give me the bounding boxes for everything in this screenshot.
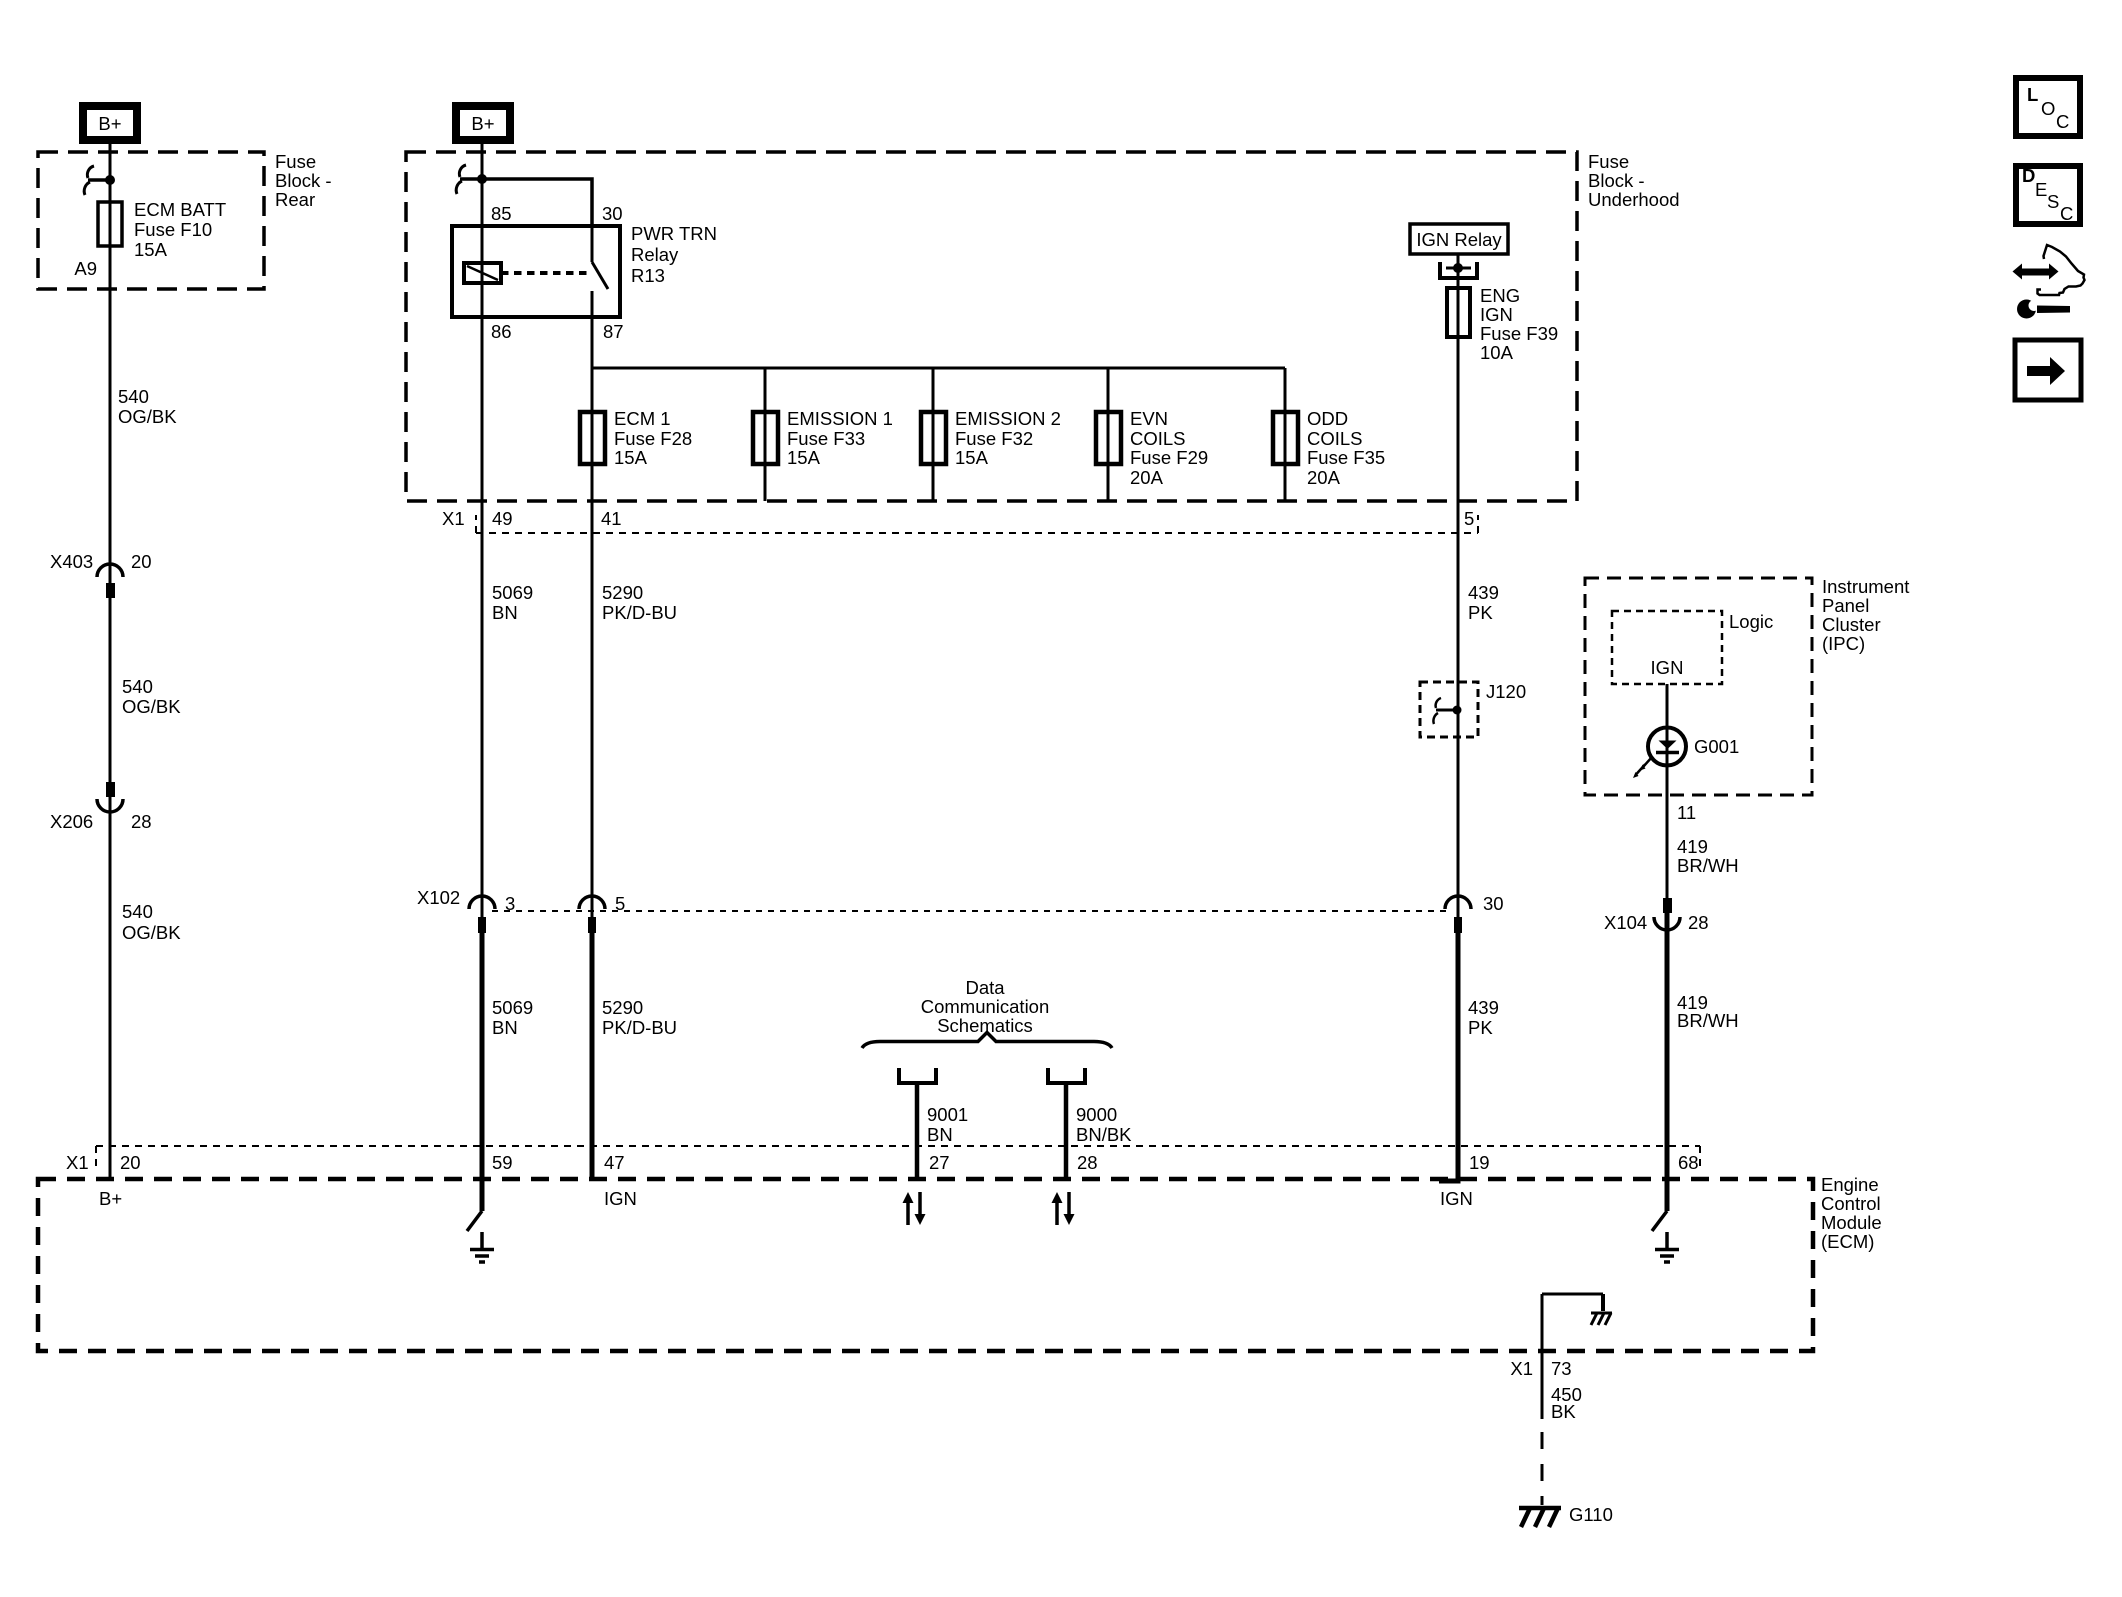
svg-text:X104: X104 bbox=[1604, 912, 1647, 933]
svg-text:X403: X403 bbox=[50, 551, 93, 572]
relay coil-contact dashed link bbox=[501, 271, 588, 275]
wire label 540 OG/BK (2) bbox=[122, 676, 181, 717]
svg-text:5: 5 bbox=[1464, 508, 1474, 529]
connector X206 bbox=[50, 782, 152, 832]
wire label 9001 BN bbox=[927, 1104, 968, 1145]
svg-text:Fuse F39: Fuse F39 bbox=[1480, 323, 1558, 344]
svg-text:BN: BN bbox=[492, 1017, 518, 1038]
svg-text:41: 41 bbox=[601, 508, 622, 529]
connector X403 bbox=[50, 551, 152, 598]
connector X104 bbox=[1604, 898, 1709, 933]
svg-text:ENG: ENG bbox=[1480, 285, 1520, 306]
svg-text:Fuse F10: Fuse F10 bbox=[134, 219, 212, 240]
svg-text:EMISSION 1: EMISSION 1 bbox=[787, 408, 893, 429]
ground at pin 59 bbox=[470, 1232, 494, 1262]
svg-text:BR/WH: BR/WH bbox=[1677, 855, 1739, 876]
svg-text:E: E bbox=[2035, 179, 2047, 200]
wire label 419 BR/WH (2) bbox=[1677, 992, 1739, 1031]
svg-text:ECM 1: ECM 1 bbox=[614, 408, 671, 429]
icon double arrow bbox=[2013, 264, 2059, 280]
small chassis ground in ECM bbox=[1591, 1313, 1612, 1325]
svg-text:Block -: Block - bbox=[1588, 170, 1645, 191]
pin X1 73 labels bbox=[1510, 1358, 1571, 1379]
svg-text:A9: A9 bbox=[74, 258, 97, 279]
svg-text:EVN: EVN bbox=[1130, 408, 1168, 429]
svg-text:(IPC): (IPC) bbox=[1822, 633, 1865, 654]
fuse block underhood label bbox=[1588, 151, 1680, 210]
svg-text:PK/D-BU: PK/D-BU bbox=[602, 602, 677, 623]
connector X102 pin 5 bbox=[579, 893, 625, 933]
connector X102 pin 3 bbox=[469, 893, 515, 933]
svg-text:X102: X102 bbox=[417, 887, 460, 908]
wire 540 OG/BK left vertical bbox=[109, 144, 112, 1179]
svg-text:OG/BK: OG/BK bbox=[122, 696, 181, 717]
connector X102 pin 30 bbox=[1445, 893, 1504, 933]
relay coil bbox=[464, 263, 501, 283]
svg-text:B+: B+ bbox=[98, 113, 121, 134]
connector X1 fuse block line bbox=[476, 515, 1478, 533]
wire 9001 BN bbox=[915, 1085, 920, 1179]
svg-text:28: 28 bbox=[1077, 1152, 1098, 1173]
wire label 419 BR/WH (1) bbox=[1677, 836, 1739, 876]
ECM switch blade pin 59 bbox=[467, 1211, 482, 1231]
svg-text:BK: BK bbox=[1551, 1401, 1576, 1422]
svg-text:5069: 5069 bbox=[492, 582, 533, 603]
svg-text:X1: X1 bbox=[66, 1152, 89, 1173]
svg-text:PK/D-BU: PK/D-BU bbox=[602, 1017, 677, 1038]
data link cup 9000 bbox=[1046, 1068, 1087, 1083]
svg-text:439: 439 bbox=[1468, 997, 1499, 1018]
svg-text:BR/WH: BR/WH bbox=[1677, 1010, 1739, 1031]
svg-text:G001: G001 bbox=[1694, 736, 1739, 757]
svg-text:Fuse F28: Fuse F28 bbox=[614, 428, 692, 449]
ECM label bbox=[1821, 1174, 1882, 1252]
svg-text:BN/BK: BN/BK bbox=[1076, 1124, 1132, 1145]
relay pin labels bbox=[491, 203, 624, 342]
IGN Relay box bbox=[1410, 224, 1508, 254]
svg-text:Control: Control bbox=[1821, 1193, 1881, 1214]
svg-text:15A: 15A bbox=[955, 447, 989, 468]
wire 5069 BN vertical bbox=[481, 144, 484, 917]
svg-text:9001: 9001 bbox=[927, 1104, 968, 1125]
svg-text:87: 87 bbox=[603, 321, 624, 342]
fuse block rear dashed box bbox=[38, 152, 264, 289]
fuse EVN COILS label bbox=[1130, 408, 1208, 488]
fuse bus line bbox=[592, 367, 1285, 370]
icon LOC box bbox=[2016, 78, 2080, 136]
svg-text:49: 49 bbox=[492, 508, 513, 529]
svg-text:Fuse F29: Fuse F29 bbox=[1130, 447, 1208, 468]
svg-text:X206: X206 bbox=[50, 811, 93, 832]
svg-text:11: 11 bbox=[1677, 802, 1696, 823]
wire 5290 from relay 87 bbox=[591, 291, 594, 917]
fuse ENG IGN F39 bbox=[1447, 288, 1470, 337]
relay R13 box bbox=[452, 226, 620, 317]
ground at pin 68 bbox=[1655, 1232, 1679, 1262]
svg-text:28: 28 bbox=[1688, 912, 1709, 933]
svg-text:9000: 9000 bbox=[1076, 1104, 1117, 1125]
svg-text:86: 86 bbox=[491, 321, 512, 342]
svg-text:5069: 5069 bbox=[492, 997, 533, 1018]
IPC label bbox=[1822, 576, 1909, 654]
svg-text:15A: 15A bbox=[787, 447, 821, 468]
svg-text:Underhood: Underhood bbox=[1588, 189, 1680, 210]
wire label 5290 PK/D-BU (2) bbox=[602, 997, 677, 1038]
splice hook at B+ rear bbox=[84, 166, 110, 195]
svg-text:20: 20 bbox=[120, 1152, 141, 1173]
wire label 540 OG/BK (3) bbox=[122, 901, 181, 943]
logic dashed box bbox=[1612, 611, 1722, 684]
fuse ODD COILS F35 bbox=[1273, 412, 1298, 464]
svg-text:19: 19 bbox=[1469, 1152, 1490, 1173]
wire label 5290 PK/D-BU (1) bbox=[602, 582, 677, 623]
svg-text:IGN: IGN bbox=[1440, 1188, 1473, 1209]
svg-text:540: 540 bbox=[122, 901, 153, 922]
wire label 5069 BN (1) bbox=[492, 582, 533, 623]
svg-text:IGN: IGN bbox=[604, 1188, 637, 1209]
data arrows pin 27 bbox=[903, 1192, 926, 1225]
connector X1 ECM labels bbox=[66, 1152, 1699, 1173]
svg-text:COILS: COILS bbox=[1130, 428, 1186, 449]
fuse ODD COILS label bbox=[1307, 408, 1385, 488]
svg-text:C: C bbox=[2056, 111, 2069, 132]
wire label 439 PK (1) bbox=[1468, 582, 1499, 623]
icon arrow box bbox=[2015, 340, 2081, 400]
connector X1 ECM line bbox=[96, 1146, 1700, 1169]
fuse EMISSION2 lead bbox=[932, 368, 935, 501]
svg-text:Logic: Logic bbox=[1729, 611, 1773, 632]
junction dot at B+ underhood bbox=[477, 174, 487, 184]
fuse block underhood dashed box bbox=[406, 152, 1577, 501]
splice J120 dot bbox=[1453, 706, 1462, 715]
ECM dashed box bbox=[38, 1179, 1813, 1351]
fuse ODD COILS lead bbox=[1284, 368, 1287, 501]
svg-text:Data: Data bbox=[965, 977, 1005, 998]
fuse EMISSION1 lead bbox=[764, 368, 767, 501]
svg-text:PK: PK bbox=[1468, 1017, 1493, 1038]
svg-text:Relay: Relay bbox=[631, 244, 679, 265]
fuse F10 label bbox=[134, 199, 226, 260]
terminal B+ rear bbox=[83, 106, 137, 140]
svg-text:Fuse F33: Fuse F33 bbox=[787, 428, 865, 449]
svg-text:68: 68 bbox=[1678, 1152, 1699, 1173]
ground G110 bbox=[1519, 1508, 1561, 1527]
connector X1 fuse block labels bbox=[442, 508, 1474, 529]
svg-text:ECM BATT: ECM BATT bbox=[134, 199, 226, 220]
svg-text:PWR TRN: PWR TRN bbox=[631, 223, 717, 244]
svg-text:G110: G110 bbox=[1569, 1504, 1613, 1525]
svg-text:IGN: IGN bbox=[1480, 304, 1513, 325]
svg-text:S: S bbox=[2047, 191, 2059, 212]
svg-text:BN: BN bbox=[927, 1124, 953, 1145]
indicator G001 LED bbox=[1633, 728, 1686, 779]
icon wrench bbox=[2017, 299, 2070, 319]
fuse EVN COILS lead bbox=[1107, 368, 1110, 501]
relay pin30 lead bbox=[591, 226, 594, 262]
svg-text:OG/BK: OG/BK bbox=[122, 922, 181, 943]
svg-text:IGN Relay: IGN Relay bbox=[1416, 229, 1502, 250]
svg-text:B+: B+ bbox=[471, 113, 494, 134]
svg-text:20: 20 bbox=[131, 551, 152, 572]
svg-text:R13: R13 bbox=[631, 265, 665, 286]
svg-text:540: 540 bbox=[118, 386, 149, 407]
svg-text:15A: 15A bbox=[134, 239, 168, 260]
svg-text:EMISSION 2: EMISSION 2 bbox=[955, 408, 1061, 429]
svg-text:X1: X1 bbox=[1510, 1358, 1533, 1379]
svg-text:Fuse: Fuse bbox=[1588, 151, 1629, 172]
svg-text:73: 73 bbox=[1551, 1358, 1572, 1379]
data arrows pin 28 bbox=[1052, 1192, 1075, 1225]
data communication brace bbox=[862, 1033, 1112, 1049]
svg-text:Engine: Engine bbox=[1821, 1174, 1879, 1195]
svg-text:Instrument: Instrument bbox=[1822, 576, 1909, 597]
svg-text:540: 540 bbox=[122, 676, 153, 697]
relay switch blade bbox=[592, 262, 608, 289]
splice J120 hook bbox=[1433, 698, 1457, 724]
svg-text:Rear: Rear bbox=[275, 189, 315, 210]
svg-text:28: 28 bbox=[131, 811, 152, 832]
instrument panel cluster dashed box bbox=[1585, 578, 1812, 795]
svg-text:10A: 10A bbox=[1480, 342, 1514, 363]
terminal B+ underhood bbox=[456, 106, 510, 140]
fuse EVN COILS F29 bbox=[1096, 412, 1121, 464]
fuse EMISSION2 F32 bbox=[921, 412, 946, 464]
svg-text:(ECM): (ECM) bbox=[1821, 1231, 1874, 1252]
IGN relay socket bar and dot bbox=[1446, 267, 1471, 270]
svg-text:Fuse F35: Fuse F35 bbox=[1307, 447, 1385, 468]
svg-text:L: L bbox=[2027, 84, 2038, 105]
wire label 450 BK bbox=[1551, 1384, 1582, 1422]
svg-text:J120: J120 bbox=[1486, 681, 1526, 702]
connector X102 dashed line bbox=[492, 910, 1448, 912]
relay name label bbox=[631, 223, 717, 286]
wire 419 BR/WH vertical bbox=[1666, 684, 1669, 898]
svg-text:439: 439 bbox=[1468, 582, 1499, 603]
icon car outline bbox=[2038, 245, 2085, 295]
icon DESC box bbox=[2016, 165, 2080, 224]
data link cup 9001 bbox=[897, 1068, 938, 1083]
svg-text:Fuse: Fuse bbox=[275, 151, 316, 172]
junction dot at B+ rear bbox=[105, 175, 115, 185]
wire 439 PK vertical bbox=[1457, 254, 1460, 917]
svg-text:30: 30 bbox=[1483, 893, 1504, 914]
svg-text:5: 5 bbox=[615, 893, 625, 914]
wire 450 BK dashed bbox=[1541, 1432, 1544, 1505]
svg-text:X1: X1 bbox=[442, 508, 465, 529]
svg-text:5290: 5290 bbox=[602, 997, 643, 1018]
svg-text:5290: 5290 bbox=[602, 582, 643, 603]
data communication schematics label bbox=[921, 977, 1050, 1036]
splice J120 dashed box bbox=[1420, 682, 1478, 737]
fuse ECM1 label bbox=[614, 408, 692, 468]
wire label 9000 BN/BK bbox=[1076, 1104, 1132, 1145]
fuse block rear label bbox=[275, 151, 332, 210]
wire top link to relay pin 30 bbox=[482, 179, 592, 226]
svg-text:PK: PK bbox=[1468, 602, 1493, 623]
fuse F10 ECM BATT bbox=[98, 202, 122, 246]
ECM switch blade pin 68 bbox=[1652, 1211, 1667, 1231]
svg-text:20A: 20A bbox=[1307, 467, 1341, 488]
svg-text:ODD: ODD bbox=[1307, 408, 1348, 429]
svg-text:85: 85 bbox=[491, 203, 512, 224]
fuse EMISSION2 label bbox=[955, 408, 1061, 468]
wire label 540 OG/BK (1) bbox=[118, 386, 177, 427]
svg-text:3: 3 bbox=[505, 893, 515, 914]
svg-text:59: 59 bbox=[492, 1152, 513, 1173]
svg-text:Block -: Block - bbox=[275, 170, 332, 191]
svg-text:27: 27 bbox=[929, 1152, 950, 1173]
svg-text:O: O bbox=[2041, 98, 2055, 119]
ECM internal ground wire bbox=[1542, 1294, 1603, 1419]
fuse ECM1 F28 bbox=[580, 412, 605, 464]
svg-text:30: 30 bbox=[602, 203, 623, 224]
svg-text:419: 419 bbox=[1677, 836, 1708, 857]
wire 9000 BN/BK bbox=[1064, 1085, 1069, 1179]
svg-text:47: 47 bbox=[604, 1152, 625, 1173]
svg-text:Communication: Communication bbox=[921, 996, 1050, 1017]
svg-text:Panel: Panel bbox=[1822, 595, 1869, 616]
splice hook at B+ underhood bbox=[456, 165, 482, 194]
wire label 5069 BN (2) bbox=[492, 997, 533, 1038]
fuse EMISSION1 F33 bbox=[753, 412, 778, 464]
svg-text:20A: 20A bbox=[1130, 467, 1164, 488]
svg-text:Fuse F32: Fuse F32 bbox=[955, 428, 1033, 449]
fuse EMISSION1 label bbox=[787, 408, 893, 468]
svg-text:15A: 15A bbox=[614, 447, 648, 468]
fuse ENG IGN label bbox=[1480, 285, 1558, 363]
svg-text:IGN: IGN bbox=[1651, 657, 1684, 678]
IGN relay socket cup bbox=[1438, 262, 1479, 278]
wire label 439 PK (2) bbox=[1468, 997, 1499, 1038]
svg-text:D: D bbox=[2022, 165, 2035, 186]
svg-text:OG/BK: OG/BK bbox=[118, 406, 177, 427]
svg-text:C: C bbox=[2060, 203, 2073, 224]
svg-text:COILS: COILS bbox=[1307, 428, 1363, 449]
svg-text:B+: B+ bbox=[99, 1188, 122, 1209]
svg-text:Cluster: Cluster bbox=[1822, 614, 1881, 635]
svg-text:Module: Module bbox=[1821, 1212, 1882, 1233]
svg-text:BN: BN bbox=[492, 602, 518, 623]
